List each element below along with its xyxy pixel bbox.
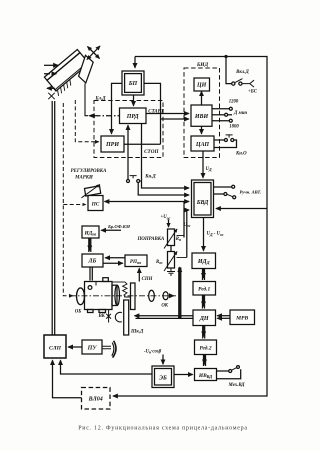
svg-text:ПРИ: ПРИ [105, 142, 119, 148]
svg-text:РЕГУЛИРОВКА: РЕГУЛИРОВКА [71, 169, 107, 174]
svg-text:МРВ: МРВ [235, 316, 248, 322]
svg-text:ЭБ: ЭБ [159, 376, 167, 382]
svg-text:Вкл.Д: Вкл.Д [235, 70, 249, 75]
svg-text:Рис. 12. Функциональная схема: Рис. 12. Функциональная схема прицела-да… [78, 426, 248, 432]
svg-text:1200: 1200 [229, 100, 239, 105]
svg-text:ИДД: ИДД [197, 259, 211, 265]
svg-text:ПОПРАВКА: ПОПРАВКА [137, 237, 166, 242]
svg-text:Мех.ВД: Мех.ВД [228, 383, 246, 388]
svg-text:СПН: СПН [142, 277, 153, 282]
svg-text:БВД: БВД [196, 200, 209, 206]
svg-text:UД: UД [206, 167, 212, 172]
svg-text:ЦИ: ЦИ [196, 83, 207, 89]
svg-text:ОК: ОК [161, 304, 168, 309]
svg-text:ОБ: ОБ [75, 310, 82, 315]
svg-text:ВЛ04: ВЛ04 [88, 397, 103, 403]
svg-text:UД - Uос: UД - Uос [207, 232, 224, 237]
svg-text:ЦАП: ЦАП [195, 142, 210, 148]
svg-text:Кн.О: Кн.О [235, 152, 247, 157]
svg-text:-Uн·cosβ: -Uн·cosβ [144, 349, 162, 354]
svg-text:ПС: ПС [91, 201, 100, 207]
svg-text:СТОП: СТОП [144, 149, 159, 155]
svg-text:Кн.Д: Кн.Д [144, 175, 156, 180]
svg-text:Бл.Д: Бл.Д [95, 96, 107, 101]
svg-text:Rос: Rос [156, 260, 163, 265]
svg-text:РПпв: РПпв [130, 259, 141, 265]
svg-text:1800: 1800 [229, 124, 239, 129]
svg-text:ДН: ДН [199, 316, 209, 322]
svg-text:+Uос: +Uос [161, 215, 171, 220]
svg-text:ПУ: ПУ [87, 345, 98, 351]
svg-text:СТАРТ: СТАРТ [148, 109, 164, 114]
svg-text:ИДпв: ИДпв [84, 231, 97, 237]
svg-text:ПРД: ПРД [126, 114, 140, 120]
svg-text:+БС: +БС [248, 90, 258, 95]
svg-text:ИВИ: ИВИ [194, 114, 209, 120]
svg-text:БП: БП [128, 81, 138, 87]
svg-text:Uос: Uос [184, 223, 191, 228]
svg-text:СЛП: СЛП [49, 345, 62, 351]
svg-text:ИВВД: ИВВД [198, 373, 212, 379]
svg-text:Ручн. АВТ.: Ручн. АВТ. [240, 189, 262, 194]
svg-text:Шк.Д: Шк.Д [130, 330, 144, 335]
svg-text:Д мин: Д мин [233, 111, 247, 116]
svg-text:ВК: ВК [97, 314, 105, 319]
svg-text:МАРКИ: МАРКИ [74, 176, 93, 181]
svg-text:БИД: БИД [196, 62, 209, 68]
svg-text:Rп: Rп [176, 237, 181, 242]
svg-text:Бр.ОФ.КМ: Бр.ОФ.КМ [107, 224, 131, 229]
svg-text:ЛБ: ЛБ [87, 259, 96, 265]
svg-text:Ред.2: Ред.2 [199, 345, 211, 352]
svg-text:Ред.1: Ред.1 [198, 286, 210, 293]
